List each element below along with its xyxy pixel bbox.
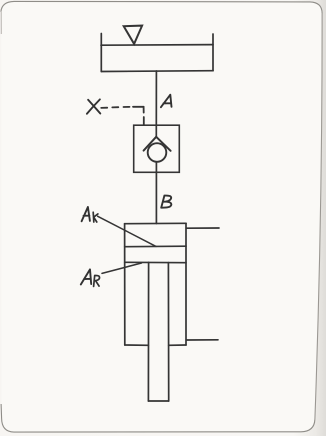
check valve V1 ball [148, 143, 167, 162]
label B (node B) [161, 196, 171, 208]
tank T1 right wall with tick [212, 34, 214, 71]
cylinder C1 left wall [124, 224, 126, 345]
wire A (tank to check valve seat) [155, 71, 157, 137]
cylinder C1 bottom cap left segment [125, 344, 149, 346]
piston top edge [125, 245, 186, 248]
cylinder C1 right wall [185, 223, 187, 345]
tank T1 top edge [101, 44, 213, 47]
piston rod right side [167, 263, 169, 401]
check valve V1 body box [134, 125, 180, 172]
label X (pilot port) [87, 99, 100, 113]
label Ak (piston area) [82, 207, 98, 222]
label A (node A) [161, 95, 172, 108]
cylinder C1 top cap [125, 222, 186, 224]
port line lower right [187, 339, 218, 341]
wire B (check valve to cylinder) [155, 162, 157, 224]
pilot line X dashed horizontal [101, 107, 143, 108]
label Ar (annulus area) [81, 269, 100, 286]
piston bottom edge [125, 261, 186, 263]
check valve V1 seat right arm [156, 137, 170, 151]
port line upper right [187, 227, 219, 229]
leader line for Ak [98, 216, 156, 246]
check valve V1 seat left arm [144, 137, 157, 151]
tank T1 left wall with tick [100, 34, 102, 72]
leader line for Ar [102, 263, 142, 273]
vent triangle [124, 26, 142, 44]
piston rod end [148, 400, 168, 402]
cylinder C1 bottom cap right segment [169, 344, 186, 346]
tank T1 bottom edge [101, 70, 213, 73]
piston rod left side [147, 262, 149, 401]
pilot line X corner and dashed vertical [143, 107, 145, 125]
